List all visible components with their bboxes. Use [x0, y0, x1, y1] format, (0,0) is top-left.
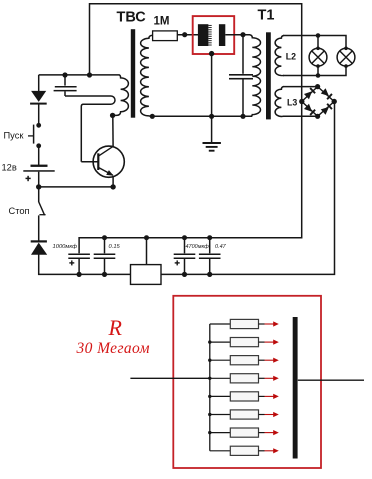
- resistor ladder R2: [210, 341, 231, 343]
- electrode plate bar: [293, 317, 298, 459]
- capacitor C2 bottom lead: [242, 80, 244, 117]
- resistor ladder R3: [210, 359, 231, 361]
- svg-text:Пуск: Пуск: [4, 131, 25, 141]
- red arrow for R8: [265, 448, 279, 453]
- bridge diode NE: [321, 88, 333, 100]
- resistor ladder R6: [210, 414, 231, 416]
- transistor VT1 base wire: [81, 161, 98, 163]
- wire down to ground: [211, 116, 213, 142]
- capacitor C5 plates: [174, 254, 196, 256]
- spark gap comb teeth: [208, 24, 211, 26]
- node junction dot at x=89.5: [87, 72, 92, 77]
- node secondary bottom dot: [150, 114, 155, 119]
- wire VD1 to start button: [38, 104, 40, 125]
- resistor ladder R7: [210, 432, 231, 434]
- bridge diode NW: [304, 87, 316, 99]
- resistor bus junction dot: [208, 413, 211, 416]
- wire lamp1 top lead: [317, 36, 319, 49]
- wire right lead from electrode bar: [298, 379, 364, 381]
- red arrow for R1: [265, 321, 279, 326]
- lamp HL2 circle: [337, 48, 355, 66]
- capacitor C5 4700uF top lead: [184, 238, 186, 254]
- red arrow for R7: [265, 430, 279, 435]
- capacitor C3 plus sign: [69, 262, 74, 264]
- capacitor C6 plates: [199, 254, 221, 256]
- wire left branch vertical (diode-switch-battery chain): [38, 75, 40, 91]
- pushbutton SB1 Pusk: contact dots: [36, 123, 41, 128]
- transistor VT1 emitter arrowhead: [106, 170, 113, 176]
- lamp connection dots: [316, 47, 320, 51]
- transistor VT1 circle: [93, 146, 124, 177]
- transistor VT1 emitter stroke: [98, 167, 113, 175]
- wire outer loop: left vertical, top rail, right rail x=301.7, lower bus y=237.7: [79, 4, 302, 254]
- wire emitter vertical: [112, 176, 114, 187]
- wire horizontal +12V node y=75.2: [39, 74, 120, 76]
- wire resistor to spark gap: [177, 34, 198, 36]
- diode VD2 (cathode up) bar: [31, 240, 47, 242]
- capacitor C1 bottom lead: [64, 91, 66, 96]
- resistor bus junction dot: [208, 340, 211, 343]
- wire L3 bottom to bridge: [283, 115, 318, 117]
- wire spark gap down to HV bus: [211, 54, 213, 117]
- resistor bus junction dot: [208, 359, 211, 362]
- node junction dot at x=65: [62, 72, 67, 77]
- transistor VT1 base bar: [97, 153, 99, 170]
- svg-text:L2: L2: [286, 51, 296, 61]
- spark gap electrode bar: [219, 24, 225, 46]
- red arrow for R5: [265, 394, 279, 399]
- resistor ladder R1: [210, 323, 231, 325]
- node lamp1 top tee dot: [316, 33, 321, 38]
- node dot before red box: [182, 32, 187, 37]
- switch SA1 contact tick: [39, 214, 45, 216]
- resistor bus junction dot: [208, 377, 211, 380]
- module box tap wire: [146, 238, 148, 265]
- rectifier bridge diamond: [302, 87, 334, 117]
- diode VD1 (cathode down): [31, 91, 46, 102]
- node C2 bottom dot: [240, 114, 245, 119]
- pushbutton SB1 stem tick: [28, 135, 34, 137]
- transformer TVS core bar: [131, 29, 135, 118]
- resistor ladder R8: [210, 450, 231, 452]
- lamp HL1 circle: [309, 48, 327, 66]
- transformer T1 secondary L3 (3 loops): [275, 87, 284, 117]
- svg-text:R: R: [108, 315, 123, 340]
- node lamp1 bottom tee dot: [316, 73, 321, 78]
- capacitor C5 bottom lead: [184, 259, 186, 274]
- svg-text:30 Мегаом: 30 Мегаом: [76, 340, 150, 357]
- pushbutton SB1 bar: [33, 125, 35, 144]
- red arrow for R4: [265, 376, 279, 381]
- node dot at capacitor C2 top: [240, 32, 245, 37]
- battery GB1 12v: short thick plate: [31, 165, 48, 167]
- node battery-minus junction dot: [36, 184, 41, 189]
- red annotation box around spark gap: [193, 16, 235, 54]
- wire feedback hairpin loop from capacitor to base: [65, 96, 115, 162]
- wire left lead into resistor stack: [130, 377, 209, 379]
- capacitor C1 across winding: top lead: [64, 75, 66, 86]
- transformer TVS secondary winding (8 loops): [141, 35, 153, 116]
- svg-text:1M: 1M: [154, 16, 170, 28]
- node dots on bottom bus: [77, 272, 82, 277]
- svg-text:1000мкф: 1000мкф: [53, 244, 78, 250]
- wire stop switch to diode VD2: [38, 215, 40, 241]
- capacitor C5 plus sign: [175, 262, 180, 264]
- svg-text:ТВС: ТВС: [117, 10, 147, 26]
- transformer T1 secondary L2 (4 loops): [275, 36, 284, 76]
- node winding-collector dot: [110, 113, 115, 118]
- diode VD2 triangle: [31, 243, 47, 255]
- capacitor C3 bottom lead: [78, 259, 80, 274]
- svg-text:L3: L3: [287, 98, 297, 108]
- bridge corner dots: [315, 84, 320, 89]
- resistor bus junction dot: [208, 431, 211, 434]
- wire bottom bus y=274.4 left segment (from VD2 corner): [39, 255, 131, 275]
- node HV bus dot: [209, 114, 214, 119]
- capacitor C4 bottom lead: [104, 259, 106, 274]
- svg-text:4700мкф: 4700мкф: [186, 244, 210, 250]
- lamp HL1 cross: [312, 51, 325, 64]
- red arrow for R2: [265, 340, 279, 345]
- svg-text:0.47: 0.47: [215, 244, 227, 250]
- resistor bus junction dot: [208, 395, 211, 398]
- wire L2 bottom from lamps (corner up to lamp HL2): [283, 66, 346, 75]
- wire L3 top to bridge: [283, 86, 318, 88]
- capacitor C2 plates: [229, 74, 253, 76]
- capacitor C2 top lead: [242, 35, 244, 74]
- capacitor C4 plates: [94, 254, 116, 256]
- bridge diode SE: [321, 103, 333, 115]
- resistor ladder R4: [210, 377, 231, 379]
- transformer T1 primary winding (7 loops): [250, 35, 261, 117]
- svg-text:0.15: 0.15: [109, 244, 121, 250]
- lamp HL2 cross: [340, 51, 353, 64]
- spark gap electrode comb block: [198, 24, 209, 46]
- capacitor C6 0.47 top lead: [209, 238, 211, 254]
- resistor R1 1M body: [153, 31, 178, 41]
- resistor stack left bus: [209, 324, 211, 451]
- capacitor C1 plates: [55, 86, 77, 88]
- wire L2 top to lamps (corner down to lamp HL2): [283, 36, 346, 49]
- module box: [131, 265, 162, 285]
- capacitor C4 0.15 top lead: [104, 238, 106, 254]
- wire battery to junction: [38, 172, 40, 202]
- transistor VT1 collector stroke: [98, 146, 113, 156]
- battery GB1 long thin plate: [23, 170, 54, 172]
- wire collector vertical: [112, 115, 114, 146]
- transformer T1 core bar: [266, 32, 271, 119]
- wire HV bus y=116.3: [152, 115, 252, 117]
- svg-text:Стоп: Стоп: [9, 206, 30, 216]
- capacitor C3 plates: [68, 254, 90, 256]
- wire bottom bus y=274.4 right segment (to bridge corner): [161, 102, 335, 275]
- bridge diode SW: [304, 104, 316, 116]
- capacitor C6 bottom lead: [209, 259, 211, 274]
- node spark gap bottom dot: [209, 51, 214, 56]
- ground symbol: [203, 142, 221, 144]
- wire button to battery: [38, 146, 40, 165]
- red arrow for R6: [265, 412, 279, 417]
- red arrow for R3: [265, 358, 279, 363]
- node emitter junction dot: [110, 184, 115, 189]
- resistor ladder R5: [210, 395, 231, 397]
- transformer TVS primary winding L1 (3 loops): [113, 75, 129, 116]
- wire emitter return y=187: [39, 186, 113, 188]
- wire lamp1 bottom lead: [317, 66, 319, 75]
- switch SA1 Stop blade: [39, 202, 45, 215]
- wire spark gap to T1 primary: [225, 34, 250, 36]
- svg-text:T1: T1: [258, 8, 275, 24]
- svg-text:12в: 12в: [2, 163, 17, 173]
- battery plus sign: [26, 177, 31, 179]
- red annotation box around resistor stack: [173, 296, 321, 468]
- node dots on lower bus: [102, 235, 107, 240]
